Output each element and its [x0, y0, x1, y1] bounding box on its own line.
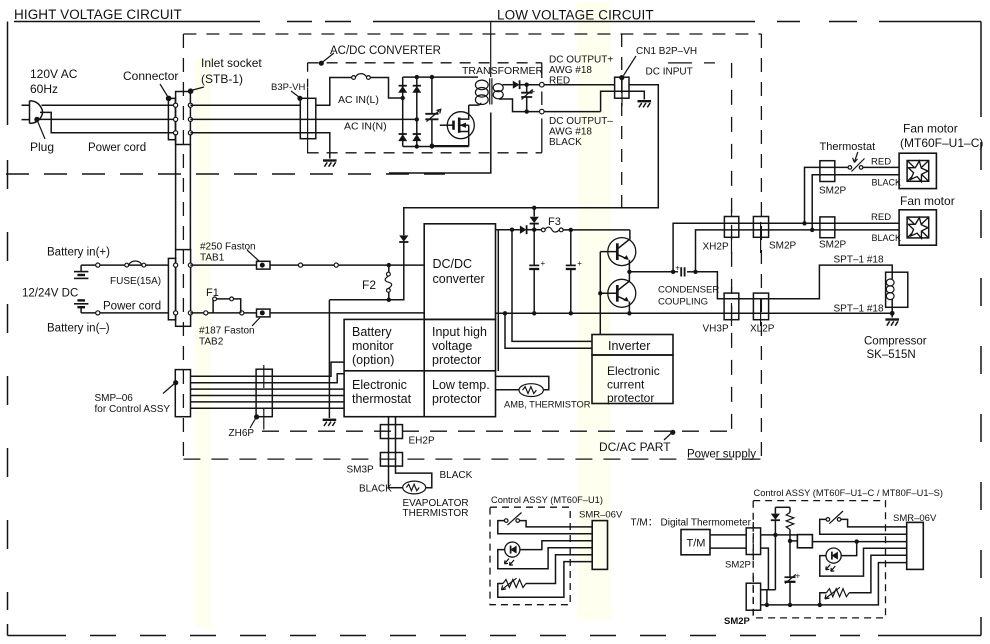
LED left assy: [505, 542, 520, 565]
ground drop wire from F2 node line: [328, 300, 330, 418]
svg-text:BLACK: BLACK: [549, 137, 582, 148]
label SM2P fan2: [819, 240, 847, 251]
title HIGHT VOLTAGE CIRCUIT: [14, 7, 182, 22]
label Plug with pointer: [30, 117, 54, 154]
fan2 red wire: [805, 222, 900, 224]
power supply dashed box left edge: [182, 34, 184, 459]
protector grid vertical divider: [423, 319, 425, 416]
tm bottom wire routed down: [761, 548, 776, 590]
wire plug top to inlet: [42, 104, 176, 106]
label EH2P: [409, 436, 435, 447]
svg-text:TRANSFORMER: TRANSFORMER: [462, 65, 544, 77]
label #250 Faston TAB1 with pointer: [200, 242, 259, 264]
svg-text:(option): (option): [352, 353, 394, 367]
svg-text:Input high: Input high: [432, 325, 487, 339]
resistor right assy: [786, 507, 794, 543]
label 120V AC 60Hz: [30, 67, 78, 96]
svg-text:RED: RED: [871, 157, 891, 168]
fan motor 2 box: [899, 210, 936, 245]
relay box right assy: [790, 535, 812, 548]
ground below thermostat box: [323, 420, 337, 426]
bridge diode D4: [412, 134, 421, 141]
label Battery in(+): [47, 247, 110, 259]
potentiometer right assy: [825, 587, 849, 599]
svg-text:Control ASSY (MT60F–U1): Control ASSY (MT60F–U1): [491, 495, 603, 505]
wire CN1 top pin to DC/DC feed: [404, 85, 659, 236]
inverter feed wire B: [512, 230, 592, 342]
MOSFET substrate arrow: [459, 123, 469, 128]
fuse F1 bridge: [213, 297, 241, 313]
MOSFET Q3 circle: [447, 112, 474, 139]
label RED fan2: [871, 212, 891, 223]
inverter box: [592, 335, 673, 356]
svg-text:SK–515N: SK–515N: [867, 349, 916, 361]
bridge top bar: [403, 75, 478, 79]
svg-text:protector: protector: [607, 391, 654, 405]
svg-text:AWG #18: AWG #18: [549, 127, 592, 138]
svg-text:+: +: [675, 264, 680, 273]
clamp diode D8: [530, 209, 539, 232]
AC/DC converter dashed box right: [541, 63, 543, 153]
battery connector rectangle: [168, 258, 175, 319]
label CN1 B2P-VH with pointer: [619, 46, 697, 80]
outer frame top edge: [14, 21, 981, 23]
svg-text:voltage: voltage: [432, 339, 472, 353]
fan1 black riser: [812, 175, 899, 230]
label SMR-06V right: [893, 513, 937, 524]
svg-text:Plug: Plug: [30, 140, 54, 154]
svg-text:Power cord: Power cord: [103, 301, 161, 313]
bridge rectifier rails: [403, 77, 417, 146]
connector SM2P top middle: [753, 217, 768, 254]
label AC IN(N): [344, 121, 387, 133]
svg-text:CN1 B2P–VH: CN1 B2P–VH: [636, 46, 697, 57]
wire fuse to bridge: [370, 78, 405, 101]
battery inlet rectangle: [176, 250, 191, 327]
svg-text:SM2P: SM2P: [724, 616, 751, 627]
MOSFET gate stub: [440, 121, 454, 130]
potentiometer left assy: [502, 578, 526, 590]
LED right assy: [826, 548, 841, 571]
DC output minus boundary pin: [540, 109, 545, 114]
inlet socket rectangle: [176, 92, 191, 145]
left control assy dashed box: [490, 507, 570, 605]
label RED fan1: [871, 157, 891, 168]
AC/DC converter dashed box bottom: [308, 152, 542, 154]
svg-text:DC OUTPUT–: DC OUTPUT–: [549, 116, 613, 127]
svg-text:AMB, THERMISTOR: AMB, THERMISTOR: [504, 400, 591, 410]
top link wire right assy: [775, 506, 790, 508]
capacitor right assy: [785, 541, 801, 607]
snubber capacitor with slash: [425, 77, 441, 146]
label Power cord: [88, 142, 146, 154]
filter capacitor C4: [566, 230, 582, 316]
label SM2P tm2: [724, 616, 751, 627]
ground rail: [496, 311, 893, 315]
svg-text:Battery in(+): Battery in(+): [47, 247, 110, 259]
fan1 red riser: [805, 167, 849, 223]
MOSFET drain stub: [459, 105, 469, 119]
svg-text:monitor: monitor: [352, 339, 394, 353]
svg-text:Electronic: Electronic: [352, 378, 407, 392]
AC/DC converter dashed box top: [308, 62, 542, 64]
label Battery monitor (option): [352, 325, 394, 367]
wire battery minus: [81, 311, 168, 315]
label F2: [362, 278, 376, 292]
wire inlet to B3P top: [190, 104, 300, 106]
svg-text:F3: F3: [548, 216, 561, 228]
DC/DC converter box: [424, 224, 495, 320]
svg-text:Fan motor: Fan motor: [900, 194, 955, 208]
label EVAPOLATOR THERMISTOR: [403, 498, 469, 519]
svg-text:Power supply: Power supply: [687, 449, 756, 461]
inlet socket pin circles: [174, 103, 193, 135]
AMB thermistor: [519, 384, 543, 397]
label Fan motor (MT60F-U1-C): [900, 122, 983, 151]
svg-text:Inverter: Inverter: [608, 339, 650, 353]
connector rectangle: [168, 98, 175, 139]
power supply dashed box top edge: [183, 33, 761, 35]
label #187 Faston TAB2 with pointer: [199, 318, 260, 348]
outer frame left edge: [7, 22, 9, 636]
connector XH2P: [724, 209, 738, 254]
label Control ASSY (MT60F-U1): [491, 495, 603, 505]
fuse F2: [385, 265, 392, 300]
label SMR-06V left: [579, 510, 623, 521]
wire B3P bottom to ground: [316, 133, 330, 159]
wire connector to F1: [190, 311, 256, 315]
svg-text:ZH6P: ZH6P: [229, 428, 255, 439]
label T/M: Digital Thermometer: [631, 518, 752, 529]
outer frame bottom edge: [8, 635, 982, 637]
svg-text:for Control ASSY: for Control ASSY: [95, 404, 171, 415]
svg-text:DC OUTPUT+: DC OUTPUT+: [549, 55, 613, 66]
label VH3P: [703, 324, 729, 335]
ZH6P connector: [256, 365, 272, 430]
wire plug middle contact step: [40, 112, 176, 132]
bridge diode D1: [398, 86, 407, 93]
label Thermostat with arrow: [820, 141, 876, 163]
relay output wire with node: [812, 539, 906, 543]
label B3P-VH with pointer: [271, 82, 305, 101]
connector SM3P: [380, 453, 402, 467]
label SM2P fan1: [819, 186, 847, 197]
label Control ASSY (MT60F-U1-C / MT80F-U1-S): [754, 488, 943, 498]
bridge diode D3: [398, 134, 407, 141]
power supply dashed box right edge: [760, 34, 762, 458]
svg-text:Connector: Connector: [123, 69, 178, 83]
wire secondary bottom to DC output minus: [499, 99, 601, 114]
DC/AC part dashed boundary vertical: [668, 63, 732, 434]
label Power supply: [687, 449, 756, 461]
svg-text:AC IN(L): AC IN(L): [338, 94, 379, 106]
svg-text:thermostat: thermostat: [352, 392, 412, 406]
label XL2P: [750, 324, 775, 335]
svg-text:THERMISTOR: THERMISTOR: [403, 508, 469, 519]
output sense wire A: [497, 230, 499, 371]
output diode D5: [513, 80, 520, 89]
svg-text:protector: protector: [432, 353, 481, 367]
T/M wires: [710, 535, 746, 548]
electronic current protector box: [592, 355, 673, 405]
base drive wire: [598, 252, 602, 335]
svg-text:BLACK: BLACK: [872, 178, 902, 188]
svg-text:SM2P: SM2P: [819, 186, 847, 197]
svg-text:Fan motor: Fan motor: [903, 122, 958, 136]
label FUSE(15A): [110, 276, 161, 287]
wire CN1 lower pin to ground: [629, 91, 644, 99]
wire diode to DC output plus: [520, 83, 615, 87]
input series diode D6: [399, 235, 408, 242]
svg-text:+: +: [541, 259, 546, 268]
connector SM2P fan2: [820, 217, 835, 238]
high/low voltage separator dashed line: [6, 173, 445, 175]
svg-text:RED: RED: [549, 76, 570, 87]
svg-text:DC/DC: DC/DC: [433, 257, 473, 271]
MOSFET source stub: [430, 125, 469, 148]
svg-text:Compressor: Compressor: [864, 336, 927, 348]
svg-text:SM2P: SM2P: [725, 560, 751, 571]
thermostat control wires down: [389, 417, 432, 488]
label Fan motor 2: [900, 194, 955, 208]
wire plug bottom to inlet: [37, 118, 176, 120]
svg-text:SMR–06V: SMR–06V: [579, 510, 623, 521]
svg-text:current: current: [607, 378, 645, 392]
bridge bottom bar: [403, 144, 469, 148]
svg-text:SM2P: SM2P: [769, 241, 797, 252]
SMP-06 connector: [175, 370, 190, 417]
svg-text:BLACK: BLACK: [872, 233, 902, 243]
svg-text:XL2P: XL2P: [750, 324, 775, 335]
svg-text:(STB-1): (STB-1): [201, 72, 243, 86]
label DC OUTPUT- AWG #18 BLACK: [549, 116, 613, 148]
svg-text:Battery in(–): Battery in(–): [47, 323, 110, 335]
label SPT-1 #18 lower: [834, 304, 884, 315]
connector XL2P: [753, 293, 768, 326]
label Connector with pointer: [123, 69, 178, 101]
svg-text:T/M: T/M: [687, 538, 706, 550]
pointer line from LOW VOLTAGE title: [490, 22, 492, 78]
svg-text:(MT60F–U1–C): (MT60F–U1–C): [900, 136, 983, 150]
label SPT-1 #18 upper: [834, 255, 884, 266]
battery connector pin circles: [174, 263, 193, 315]
label Electronic thermostat: [352, 378, 412, 406]
svg-text:Thermostat: Thermostat: [820, 141, 876, 153]
label Low temp. protector: [432, 378, 490, 406]
transformer secondary winding: [493, 84, 503, 99]
label SM3P: [347, 465, 375, 476]
ground below B3P: [323, 161, 337, 167]
svg-text:AC IN(N): AC IN(N): [344, 121, 387, 133]
compressor feed wire: [696, 265, 893, 299]
compressor box: [886, 272, 908, 307]
wire B3P top pin up to fuse: [316, 78, 352, 106]
connector SM2P fan1: [820, 161, 835, 182]
wire diode down to F2 node line: [329, 242, 403, 302]
label SM2P top middle: [769, 241, 797, 252]
svg-text:DC/AC PART: DC/AC PART: [599, 440, 671, 454]
transistor Q2: [600, 279, 636, 307]
Q1 collector wire: [629, 230, 631, 240]
label DC/AC PART: [599, 430, 675, 454]
label DC INPUT: [646, 67, 693, 78]
scan artifact yellow band middle: [577, 2, 611, 620]
bridge diode D2: [412, 86, 421, 93]
pot wires right assy: [820, 555, 907, 605]
label AC IN(L): [338, 94, 379, 106]
svg-text:+: +: [796, 572, 801, 581]
left assy switch wires: [498, 521, 592, 534]
connector SM2P tm1: [746, 522, 760, 560]
connector CN1 B2P-VH: [615, 77, 629, 106]
right control assy dashed box: [753, 501, 885, 618]
protector grid outer box: [344, 319, 495, 416]
svg-text:SMP–06: SMP–06: [95, 393, 134, 404]
wire connector to TAB1: [190, 264, 256, 266]
svg-text:TAB2: TAB2: [199, 337, 224, 348]
diode right assy: [771, 507, 780, 590]
DC input boundary dashed line: [621, 34, 623, 207]
svg-text:DC INPUT: DC INPUT: [646, 67, 693, 78]
Faston TAB2: [257, 309, 271, 317]
wire inlet to B3P bottom: [190, 132, 316, 134]
condenser coupling capacitor: [675, 264, 698, 277]
fuse F3: [534, 227, 630, 232]
label XH2P: [703, 242, 729, 253]
svg-text:BLACK: BLACK: [359, 484, 392, 495]
power cord rails down to battery connector: [176, 140, 191, 250]
series diode D7: [520, 225, 534, 234]
svg-text:F2: F2: [362, 278, 376, 292]
svg-text:VH3P: VH3P: [703, 324, 729, 335]
wire battery plus to fuse: [81, 263, 168, 267]
DC output plus boundary pin: [540, 82, 545, 87]
six control wires from SMP-06: [191, 362, 345, 408]
protector grid horizontal divider: [344, 370, 495, 372]
svg-text:#187 Faston: #187 Faston: [199, 326, 255, 337]
scan artifact yellow band left: [195, 58, 211, 628]
svg-text:Power cord: Power cord: [88, 142, 146, 154]
AC line fuse: [352, 74, 371, 80]
label BLACK fan1: [872, 178, 902, 188]
connector SM2P tm2: [746, 576, 760, 615]
svg-text:FUSE(15A): FUSE(15A): [110, 276, 161, 287]
compressor winding: [886, 276, 894, 313]
outer frame right edge: [980, 22, 982, 636]
svg-text:SM3P: SM3P: [347, 465, 375, 476]
transformer primary winding: [475, 80, 488, 104]
battery fuse 15A: [125, 261, 146, 267]
title LOW VOLTAGE CIRCUIT: [497, 8, 654, 23]
label 12/24V DC: [22, 288, 78, 300]
MOSFET channel bar: [458, 118, 461, 133]
transformer core: [490, 78, 492, 104]
wire secondary top to output diode: [503, 84, 513, 86]
fan supply wire A: [673, 221, 807, 272]
label F1: [206, 287, 219, 299]
wire TAB2 to DC/DC box: [270, 312, 424, 314]
sm2p2 jumper wire: [761, 590, 776, 605]
power supply dashed box bottom edge: [183, 458, 760, 460]
svg-text:Electronic: Electronic: [607, 364, 660, 378]
Faston TAB1: [257, 261, 271, 269]
svg-text:Battery: Battery: [352, 325, 392, 339]
transistor Q1: [600, 238, 636, 266]
switch right assy: [826, 511, 843, 524]
svg-text:+: +: [577, 259, 582, 268]
label AMB. THERMISTOR: [504, 400, 591, 410]
coupling node wire: [629, 270, 678, 274]
fan2 black wire: [812, 229, 899, 231]
inverter ground wire: [505, 313, 592, 348]
LED wires right assy: [820, 542, 907, 577]
filter capacitor C3: [529, 230, 545, 316]
label Input high voltage protector: [432, 325, 487, 367]
pot wires left assy: [498, 555, 592, 598]
label AC/DC CONVERTER with pointer: [319, 45, 441, 66]
svg-text:protector: protector: [432, 392, 481, 406]
svg-text:T/M： Digital Thermometer: T/M： Digital Thermometer: [631, 518, 752, 529]
Q1 emitter to node: [627, 260, 631, 274]
wire inlet to B3P middle: [190, 118, 316, 120]
connector SMR-06V right: [907, 522, 924, 569]
wire TAB1 to F2 node and DC/DC: [270, 263, 424, 267]
ground at compressor: [885, 320, 899, 326]
fan motor 1 box: [899, 153, 936, 188]
connector EH2P: [380, 425, 402, 439]
svg-text:Inlet socket: Inlet socket: [201, 56, 262, 70]
connector VH3P: [724, 287, 739, 326]
AC/DC converter dashed box left: [307, 63, 309, 87]
svg-text:Control ASSY (MT60F–U1–C / MT8: Control ASSY (MT60F–U1–C / MT80F–U1–S): [754, 488, 943, 498]
T/M box: [681, 530, 710, 555]
evaporator thermistor: [389, 481, 426, 494]
ground at CN1: [638, 101, 652, 107]
svg-text:SPT–1 #18: SPT–1 #18: [834, 255, 884, 266]
label Compressor SK-515N: [864, 336, 927, 362]
DC/DC output wire with dot: [496, 228, 520, 232]
label F3: [548, 216, 561, 228]
svg-text:COUPLING: COUPLING: [658, 297, 708, 308]
label DC OUTPUT+ AWG #18 RED: [549, 55, 613, 87]
svg-text:LOW VOLTAGE CIRCUIT: LOW VOLTAGE CIRCUIT: [497, 8, 654, 23]
thermostat switch: [848, 159, 899, 172]
svg-text:AC/DC CONVERTER: AC/DC CONVERTER: [330, 45, 441, 57]
label SM2P tm1: [725, 560, 751, 571]
bottom rail right assy: [761, 563, 907, 608]
LED wires left assy: [498, 541, 592, 569]
battery symbol: [74, 265, 88, 313]
left assy switch: [504, 513, 521, 526]
label BLACK left: [359, 484, 392, 495]
svg-text:XH2P: XH2P: [703, 242, 729, 253]
plug: [22, 101, 43, 124]
svg-text:converter: converter: [433, 272, 485, 286]
wire DC minus up into CN1: [601, 91, 629, 111]
svg-text:12/24V DC: 12/24V DC: [22, 288, 78, 300]
svg-text:HIGHT VOLTAGE CIRCUIT: HIGHT VOLTAGE CIRCUIT: [14, 7, 182, 22]
transformer shield return wire: [389, 113, 491, 174]
svg-text:BLACK: BLACK: [440, 470, 473, 481]
svg-text:SM2P: SM2P: [819, 240, 847, 251]
tm top wire to relay box: [761, 533, 798, 537]
svg-text:CONDENSER: CONDENSER: [658, 285, 719, 296]
svg-text:RED: RED: [871, 212, 891, 223]
Q2 emitter to rail: [627, 302, 631, 316]
svg-text:SMR–06V: SMR–06V: [893, 513, 937, 524]
compressor ground dot: [890, 311, 895, 318]
output capacitor C2: [521, 85, 535, 112]
